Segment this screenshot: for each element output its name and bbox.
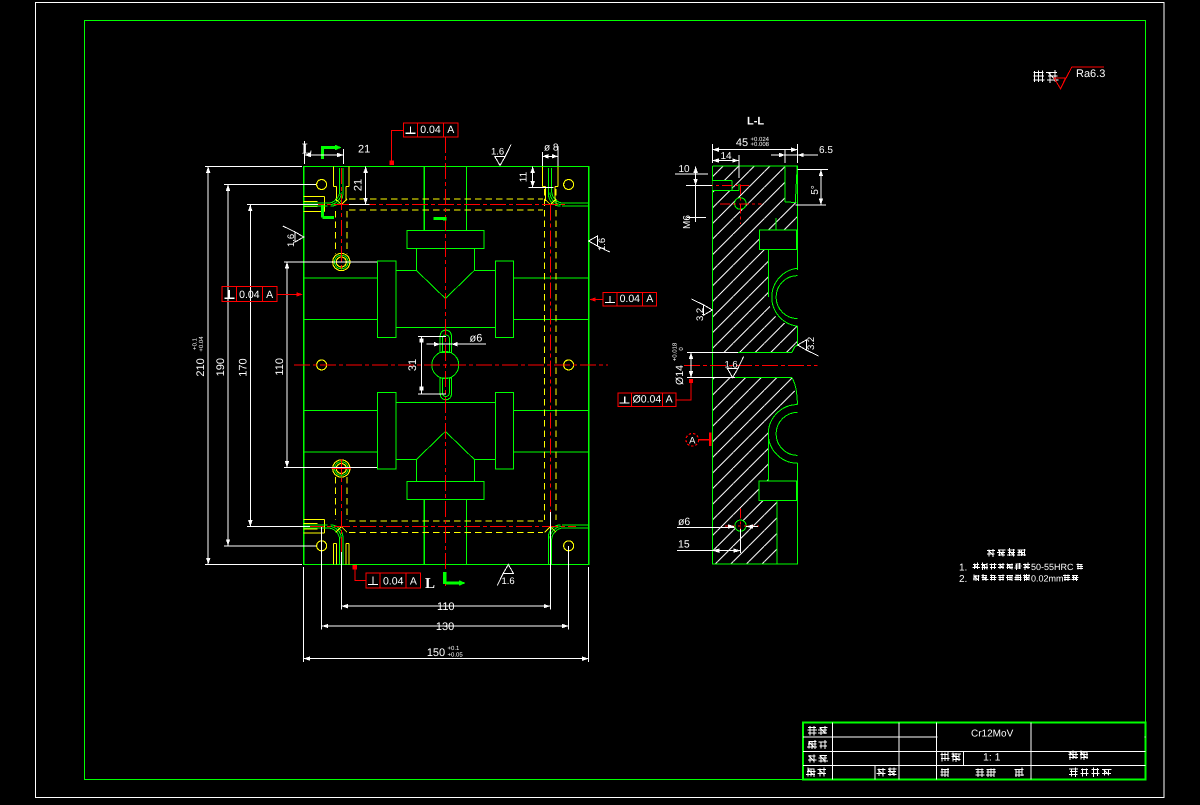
svg-text:A: A (447, 124, 454, 136)
svg-text:150: 150 (427, 647, 445, 659)
svg-text:3.2: 3.2 (806, 337, 817, 350)
svg-text:21: 21 (353, 179, 365, 191)
svg-text:Ø0.04: Ø0.04 (633, 394, 662, 406)
svg-text:+0.04: +0.04 (198, 336, 205, 352)
svg-text:1.6: 1.6 (286, 234, 297, 247)
svg-text:210: 210 (195, 358, 207, 376)
svg-text:3.2: 3.2 (695, 308, 706, 321)
svg-text:+0.1: +0.1 (448, 645, 461, 652)
svg-text:6.5: 6.5 (819, 145, 833, 156)
svg-text:5°: 5° (810, 185, 821, 195)
svg-text:0.02mm: 0.02mm (1031, 573, 1064, 583)
svg-text:11: 11 (519, 171, 530, 182)
svg-text:110: 110 (437, 601, 455, 613)
svg-text:31: 31 (407, 359, 419, 371)
svg-text:A: A (410, 575, 417, 587)
svg-text:1: 1: 1: 1 (983, 752, 1001, 764)
svg-text:0.04: 0.04 (239, 289, 260, 301)
svg-text:0.04: 0.04 (420, 124, 441, 136)
svg-text:A: A (666, 394, 673, 406)
svg-text:+0.1: +0.1 (192, 337, 199, 350)
svg-text:170: 170 (237, 358, 249, 376)
svg-text:ø 8: ø 8 (544, 143, 559, 154)
svg-text:+0.008: +0.008 (751, 141, 770, 148)
svg-text:Cr12MoV: Cr12MoV (971, 729, 1014, 740)
svg-text:ø6: ø6 (470, 333, 483, 345)
svg-text:190: 190 (215, 358, 227, 376)
svg-text:1.6: 1.6 (725, 360, 738, 371)
svg-text:110: 110 (274, 358, 286, 376)
svg-text:+0.05: +0.05 (448, 652, 464, 659)
svg-text:15: 15 (678, 539, 690, 551)
svg-text:21: 21 (358, 144, 370, 156)
svg-text:0.04: 0.04 (620, 293, 641, 305)
svg-text:ø6: ø6 (678, 516, 690, 528)
svg-text:A: A (646, 293, 653, 305)
svg-text:1.6: 1.6 (491, 147, 504, 158)
svg-text:A: A (266, 289, 273, 301)
svg-text:2.: 2. (959, 574, 967, 585)
svg-text:+0.018: +0.018 (672, 342, 679, 361)
svg-text:130: 130 (436, 621, 454, 633)
svg-text:1.6: 1.6 (597, 238, 608, 251)
svg-text:M6: M6 (682, 215, 693, 229)
svg-text:L: L (425, 576, 435, 592)
svg-text:Ra6.3: Ra6.3 (1076, 68, 1105, 80)
svg-text:1.6: 1.6 (502, 576, 515, 587)
svg-text:10: 10 (679, 164, 691, 175)
svg-text:50-55HRC: 50-55HRC (1031, 562, 1074, 572)
svg-text:L-L: L-L (747, 116, 764, 128)
svg-text:0.04: 0.04 (383, 575, 404, 587)
svg-text:Ø14: Ø14 (674, 365, 686, 385)
svg-text:A: A (689, 435, 696, 446)
svg-text:45: 45 (736, 137, 748, 149)
svg-text:14: 14 (720, 151, 732, 162)
svg-text:1.: 1. (959, 563, 967, 574)
